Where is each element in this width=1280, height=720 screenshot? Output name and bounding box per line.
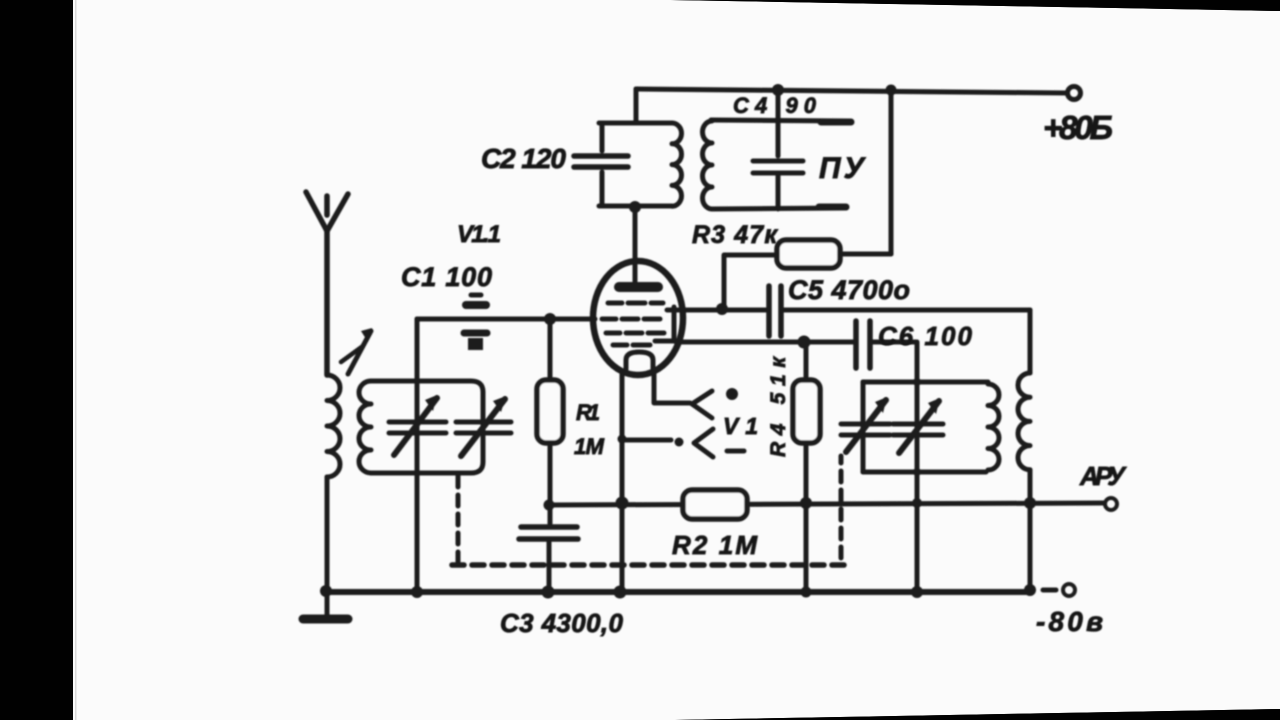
dashed gang line horizontal [452,562,845,568]
heater chevron 1 [692,391,712,418]
dashed gang line vertical right [839,456,844,558]
svg-text:С5 4700о: С5 4700о [788,275,910,305]
wire: right coil to ARU wire [1028,470,1033,590]
wire: tank1 top side [599,121,672,126]
wire: C4 bottom lead [776,176,781,209]
heater chevron 2 [694,429,713,457]
black wedge bottom right [675,709,1280,720]
node: junction R3 / anode wire [716,303,728,315]
wire: bottom bus right corner [1029,588,1034,592]
tube anode [633,263,638,283]
variable capacitor C?c arrow [846,400,886,452]
wire: cathode lead down [620,373,625,592]
wire: heater lead 1 [654,373,690,403]
wire: anode output wire right of C5 [784,308,1030,313]
svg-text:С6 100: С6 100 [878,321,973,351]
inductor L2 tank1 right coil [672,123,681,206]
svg-text:С1 100: С1 100 [401,262,492,292]
wire: R3 drop to grid wire [722,255,727,308]
variable capacitor C?c plates [841,424,890,435]
node: junction bottom bus / antenna [320,585,332,597]
svg-text:С3 4300,0: С3 4300,0 [500,608,624,638]
resistor R3 [777,240,840,268]
node: junction top bus / R3 branch [886,85,897,96]
svg-text:1М: 1М [574,434,605,459]
node: junction R1 / C3 lead [544,500,555,511]
dashed gang line vertical left [456,476,461,563]
wire: tank1 left side [600,123,605,205]
node: junction grid wire / R1 [544,313,556,325]
svg-text:R2 1М: R2 1М [672,530,758,560]
wire: right branch from top bus to R3 [889,90,894,254]
wire: right coil top drop [1028,310,1033,373]
vacuum tube V1 envelope [593,261,683,375]
wire: heater lead 2 [624,438,671,443]
antenna mast [324,229,330,375]
variable capacitor C?b plates [456,422,511,433]
variable capacitor C?b arrow [461,399,505,456]
node: junction R4 / ARU line [800,497,812,509]
wire: top B+ bus [636,89,1066,93]
node: junction varcap drop / ARU line [912,498,922,508]
node: junction coil / ARU line [1024,497,1036,509]
wire: grid wire [417,317,595,322]
wire: tank2 top right stub (PU terminal) [821,119,851,126]
wire: right tank bottom side [863,470,986,475]
capacitor C3 plates [519,527,578,539]
wire: tank2 bottom right stub (PU terminal) [819,204,846,211]
node: dot above tube label [726,388,738,400]
wire: left tank centre branch [415,319,420,592]
node: junction varcap drop / tank bottom [913,468,921,476]
wire: anode output wire left of C5 [678,308,766,313]
antenna symbol [306,192,348,231]
wire: ARU / AGC line [548,503,1104,505]
node: tank1 bottom junction [629,201,641,213]
wire: tank1 to tube anode [633,206,638,263]
terminal +80V [1068,87,1081,100]
tube grid row 1 [608,301,663,306]
variable capacitor C?d arrow [899,401,939,453]
capacitor C6 plates [856,321,870,368]
svg-text:+80Б: +80Б [1043,109,1113,146]
inductor L3 tank2 left coil [703,121,712,209]
capacitor C4 plates [753,161,803,173]
node: junction bottom bus / R4 [801,587,812,598]
svg-text:V1.1: V1.1 [457,221,501,248]
tube right bracket to anode wire [655,307,680,341]
antenna coupling squiggle [348,331,371,374]
svg-text:С2 120: С2 120 [481,143,566,174]
resistor R4 [793,342,820,503]
wire: drop to right tank varcap [915,342,920,591]
ground [303,615,348,624]
svg-text:ПУ: ПУ [819,152,867,185]
tube cathode [626,352,653,369]
tube grid row 4 [613,343,650,348]
node: junction bottom bus / C3 [542,586,555,599]
wire: tank2 top drop [776,90,781,120]
inductor L6 output coil [1018,373,1030,470]
node: junction cathode / heater 2 [618,435,627,444]
inductor L2a left tank coil [359,381,371,473]
resistor R1 [537,319,563,524]
wire: C4 top lead [776,120,781,156]
inductor L5 right tank coil [988,384,999,470]
capacitor C1 trimmer [464,295,487,350]
node: junction varcap drop / tank top [913,378,921,386]
wire: antenna coil to ground [325,477,330,617]
wire: bottom common bus [325,589,1031,595]
wire: left tank top/right/bottom sides [371,381,483,473]
node: heater blob [675,438,684,447]
capacitor C2 plates [574,156,628,167]
node: junction cathode / R2 [616,497,629,510]
wire: R3 left lead [725,253,777,258]
resistor R2 [683,490,747,519]
terminal ARU [1105,498,1117,510]
tube grid row 3 [606,331,664,336]
wire: tank1 top drop [634,89,639,123]
node: junction bottom bus / varcap drop [911,586,923,598]
node: junction bottom bus / cathode [614,586,627,599]
wire: R3 right lead [840,252,891,257]
variable capacitor C?a arrow [394,398,437,455]
variable capacitor C?d plates [893,424,943,435]
wire: tank1 bottom side [599,204,672,209]
wire: dash to -80V terminal [1043,588,1056,593]
svg-text:R1: R1 [576,400,600,425]
wire: R4 to bottom bus [804,503,809,592]
wire: right tank top side [863,380,988,385]
black wedge top right [670,0,1280,11]
terminal -80V [1063,584,1075,596]
tube label dash [727,449,744,454]
wire: screen wire left of C6 [676,340,855,345]
svg-text:С4 90: С4 90 [733,93,817,118]
wire: C3 to bottom bus [547,541,552,592]
capacitor C5 plates [769,286,781,336]
svg-text:R3 47к: R3 47к [692,221,778,249]
wire: screen wire right of C6 [873,340,915,345]
wire: right tank left side [861,382,866,472]
node: junction bottom bus / left tank [411,586,423,598]
tube grid row 2 [602,317,660,322]
node: junction R4 / screen wire [798,336,811,349]
svg-text:АРУ: АРУ [1079,461,1127,491]
wire: tank2 bottom side [712,208,846,209]
variable capacitor C?a plates [389,422,446,433]
wire: tank2 top side [711,120,848,121]
node: junction top bus / tank2 [772,84,784,96]
inductor L1 antenna coil [327,375,340,477]
